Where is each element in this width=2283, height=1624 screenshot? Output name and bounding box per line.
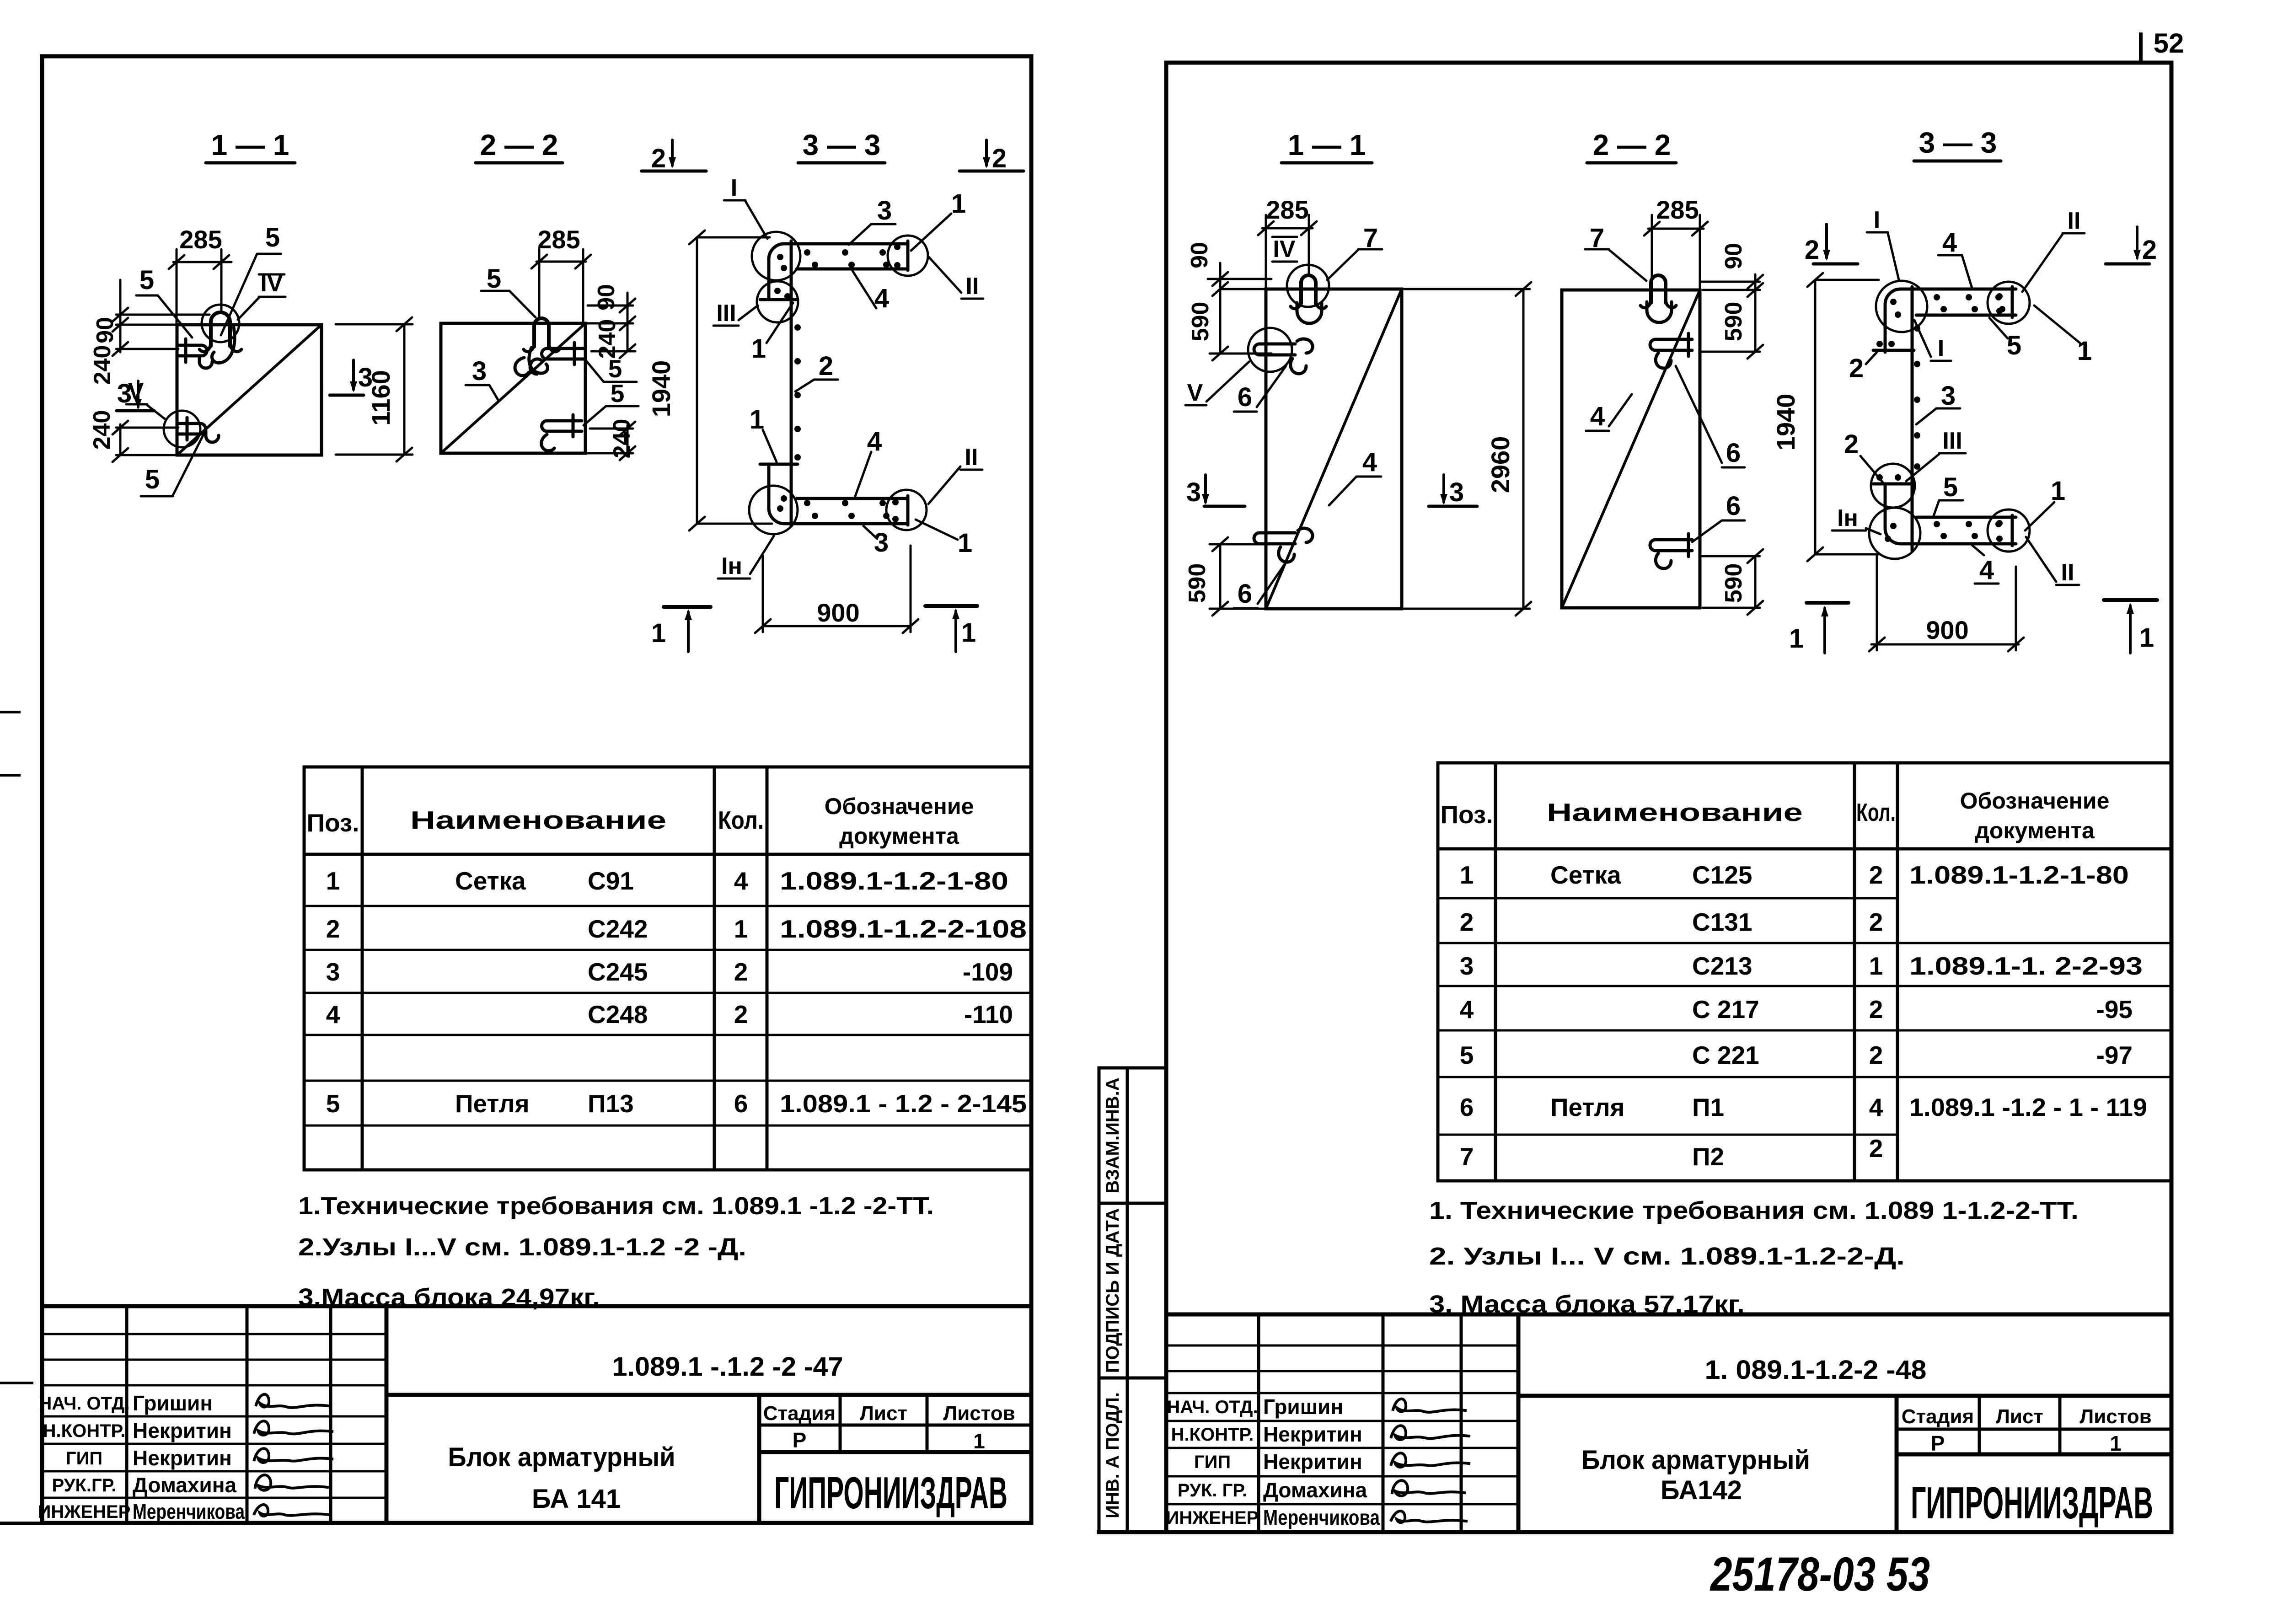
view 3-3 right: bottom flange inner line (1916, 516, 2016, 519)
svg-text:285: 285 (179, 225, 222, 254)
node label II top view 3-3 left (929, 257, 983, 300)
label 5 bottom view 1-1 (141, 431, 205, 496)
svg-text:III: III (1942, 428, 1962, 454)
svg-text:4: 4 (1869, 1093, 1883, 1121)
label 5 lower view 3-3 right (1934, 472, 1963, 516)
node label V view 1-1 right (1185, 362, 1249, 406)
svg-text:1: 1 (326, 867, 340, 895)
svg-text:3 — 3: 3 — 3 (803, 129, 881, 161)
svg-text:2: 2 (1869, 995, 1883, 1024)
view 3-3 right: top flange inner line (1916, 314, 2016, 317)
svg-text:2: 2 (1869, 1041, 1883, 1069)
signatures left sheet (254, 1394, 332, 1516)
svg-text:1: 1 (734, 915, 748, 943)
svg-text:90: 90 (593, 284, 620, 311)
title block col role (125, 1306, 129, 1523)
svg-text:1940: 1940 (1771, 394, 1800, 451)
svg-text:Стадия: Стадия (1902, 1405, 1974, 1428)
section title 2-2 left (476, 129, 563, 163)
svg-text:1: 1 (2077, 336, 2092, 366)
svg-text:БА142: БА142 (1661, 1475, 1742, 1505)
view 2-2 right: mesh diagonal 4 (1562, 290, 1700, 608)
node circle III left (757, 281, 798, 322)
svg-text:1.089.1-1.2-1-80: 1.089.1-1.2-1-80 (780, 867, 1008, 895)
title block row f (42, 1470, 386, 1473)
section title 1-1 left (206, 129, 295, 163)
section title 2-2 right (1587, 129, 1676, 163)
svg-text:285: 285 (1266, 195, 1308, 224)
notes right (1429, 1197, 2079, 1318)
svg-text:2: 2 (651, 144, 666, 173)
svg-text:Гришин: Гришин (133, 1391, 213, 1415)
tb col date right (1517, 1314, 1521, 1532)
svg-text:1. 089.1-1.2-2 -48: 1. 089.1-1.2-2 -48 (1705, 1355, 1927, 1385)
svg-text:52: 52 (2154, 28, 2184, 59)
strip divider (1126, 1068, 1129, 1532)
svg-text:4: 4 (1460, 995, 1474, 1024)
svg-text:90: 90 (92, 317, 118, 343)
strip top (1099, 1067, 1166, 1070)
view 3-3 right: top flange outer line (1885, 289, 2016, 352)
signature Некритин 1 right (1391, 1426, 1469, 1440)
table row line r2 (1438, 942, 2172, 944)
node circle II top left (888, 236, 928, 276)
svg-text:90: 90 (1720, 243, 1747, 269)
table row line 1 (304, 905, 1031, 907)
svg-text:1 — 1: 1 — 1 (1288, 129, 1366, 161)
svg-text:2960: 2960 (1486, 436, 1515, 493)
label 1 bottom view 3-3 left (916, 520, 972, 558)
svg-text:Iн: Iн (1837, 505, 1858, 531)
hook mid view 2-2 (530, 359, 542, 374)
view 3-3 left: crossbar right top (906, 241, 910, 270)
section marker 1 up bottom-left of 3-3 left (651, 607, 711, 652)
node circle Iн right (1869, 508, 1920, 559)
svg-text:С213: С213 (1692, 952, 1752, 980)
loop П hairpin view 1-1 right (1301, 275, 1316, 304)
svg-text:1.089.1 -.1.2 -2 -47: 1.089.1 -.1.2 -2 -47 (612, 1352, 843, 1382)
stadia box left (757, 1395, 761, 1523)
node circle II bottom left (886, 490, 927, 530)
rebar dots view 3-3 right (1876, 293, 2005, 542)
anchor hairpin right view 2-2 (542, 348, 586, 359)
sheet frame right (1166, 63, 2171, 1532)
svg-text:IV: IV (1273, 236, 1295, 263)
table row line 2 (304, 949, 1031, 951)
svg-text:590: 590 (1720, 563, 1747, 603)
table row line r5 (1438, 1076, 2172, 1078)
svg-text:2: 2 (734, 958, 748, 986)
svg-text:I: I (1938, 335, 1944, 362)
label 3 top view 3-3 left (849, 196, 895, 245)
view 3-3 right: crossbar right bottom (2011, 515, 2014, 546)
label 5 pair view 2-2 (586, 354, 637, 383)
label 2 mid view 3-3 right (1844, 429, 1883, 483)
label 6 lower view 2-2 right (1692, 491, 1745, 542)
svg-text:4: 4 (1362, 447, 1377, 477)
svg-text:Сетка: Сетка (1550, 861, 1621, 889)
parts table outline left (304, 767, 1031, 1170)
svg-text:1.089.1 -1.2 - 1 - 119: 1.089.1 -1.2 - 1 - 119 (1909, 1093, 2147, 1121)
svg-text:2. Узлы I... V см. 1.089.1-1: 2. Узлы I... V см. 1.089.1-1.2-2-Д. (1429, 1243, 1905, 1270)
svg-text:Р: Р (793, 1428, 807, 1452)
view 3-3 left: bottom flange outer line (769, 466, 908, 524)
svg-text:1: 1 (951, 189, 966, 219)
section marker 1 up bottom-right of 3-3 left (925, 606, 977, 652)
section marker 3 right view 1-1 right (1429, 475, 1477, 507)
view 3-3 left: top flange inner line (797, 268, 908, 271)
svg-text:С 217: С 217 (1692, 995, 1759, 1024)
anchor hairpin bottom view 2-2 (542, 421, 582, 431)
title block texts left (38, 1394, 131, 1522)
svg-text:1: 1 (958, 528, 972, 558)
doc number cell bottom right (1518, 1394, 2171, 1398)
svg-text:1: 1 (973, 1429, 985, 1453)
tb row b right (1166, 1370, 1518, 1372)
tb col sign right (1460, 1314, 1463, 1532)
svg-text:БА 141: БА 141 (532, 1484, 621, 1514)
section title 1-1 right (1281, 129, 1372, 163)
svg-text:НАЧ. ОТД.: НАЧ. ОТД. (1167, 1397, 1258, 1417)
section marker 2 down right of 3-3 right (2106, 227, 2157, 265)
svg-text:5: 5 (265, 223, 280, 252)
svg-text:документа: документа (1975, 818, 2095, 843)
svg-text:1.089.1-1.2-2-108: 1.089.1-1.2-2-108 (780, 915, 1027, 943)
stadia list divider (839, 1395, 842, 1452)
svg-text:I: I (731, 175, 737, 201)
svg-text:3: 3 (877, 196, 892, 225)
table row line r1 partial (1438, 897, 1897, 900)
view 3-3 right: bottom flange outer line (1885, 484, 2016, 544)
sheet frame left (42, 56, 1031, 1523)
tb row c right (1166, 1392, 1518, 1394)
node circle I right (1876, 281, 1927, 332)
tb col name right (1382, 1314, 1385, 1532)
svg-text:С248: С248 (588, 1000, 648, 1029)
loop lower bend view 1-1 right (1297, 303, 1322, 323)
strip section line 2 (1099, 1377, 1166, 1380)
svg-text:2: 2 (1869, 908, 1883, 936)
mid anchor hairpin view 2-2 right (1650, 339, 1692, 350)
svg-text:1 — 1: 1 — 1 (211, 129, 289, 161)
fold mark left 1 (0, 711, 19, 713)
svg-text:ГИПРОНИИЗДРАВ: ГИПРОНИИЗДРАВ (774, 1468, 1008, 1518)
svg-text:Лист: Лист (1996, 1405, 2043, 1428)
fold mark bottom left (0, 1522, 42, 1525)
svg-text:ИНЖЕНЕР: ИНЖЕНЕР (38, 1502, 131, 1522)
svg-text:900: 900 (817, 598, 859, 627)
hooks below bottom hairpin view 1-1 right (1279, 547, 1294, 562)
section title 3-3 left (798, 129, 885, 163)
svg-text:240: 240 (89, 410, 115, 450)
label 6 mid view 2-2 right (1676, 366, 1745, 468)
dimension 1160 between views (336, 317, 413, 461)
svg-text:Блок арматурный: Блок арматурный (1581, 1445, 1810, 1475)
table header bottom line (304, 853, 1031, 856)
label 4 top view 3-3 right (1938, 228, 1972, 288)
title block col name (246, 1306, 249, 1523)
view 3-3 left: web mesh line 2 (790, 241, 793, 526)
anchor hairpin left view 1-1 (177, 345, 207, 356)
section marker 3 left view 1-1 right (1186, 475, 1245, 507)
title block col sign (329, 1306, 332, 1523)
svg-text:4: 4 (1942, 228, 1957, 257)
list listov divider right (2058, 1396, 2062, 1454)
title block row e (42, 1443, 386, 1445)
parts table outline right (1438, 763, 2172, 1181)
label 6 bottom view 1-1 right (1234, 565, 1284, 609)
svg-text:1.089.1-1. 2-2-93: 1.089.1-1. 2-2-93 (1909, 952, 2143, 980)
page number tick top right (2139, 34, 2143, 63)
svg-text:2: 2 (1869, 861, 1883, 889)
svg-text:Листов: Листов (2079, 1405, 2151, 1428)
svg-text:3 — 3: 3 — 3 (1919, 126, 1997, 159)
label 1 top view 3-3 right (2034, 306, 2092, 366)
title block row a (42, 1333, 386, 1335)
svg-text:С131: С131 (1692, 908, 1752, 936)
svg-text:II: II (2061, 559, 2074, 586)
view 3-3 left: bottom flange inner line (797, 497, 908, 500)
table column line Кол right (1853, 763, 1856, 1181)
svg-text:ГИП: ГИП (66, 1448, 102, 1469)
svg-text:II: II (2068, 208, 2081, 234)
svg-text:3: 3 (1186, 477, 1201, 507)
doc number cell bottom (386, 1393, 1031, 1397)
tb row f right (1166, 1475, 1518, 1478)
svg-text:Стадия: Стадия (763, 1402, 836, 1425)
dimension 1940 view 3-3 left (689, 230, 772, 531)
strip section line 1 (1099, 1202, 1166, 1205)
label 7 view 2-2 right (1585, 223, 1646, 281)
svg-text:1.089.1 - 1.2 - 2-145: 1.089.1 - 1.2 - 2-145 (780, 1089, 1027, 1118)
label 4 view 1-1 right (1329, 447, 1381, 505)
svg-text:6: 6 (1726, 491, 1741, 521)
svg-text:3: 3 (1449, 477, 1464, 507)
label 4 view 2-2 right (1586, 394, 1632, 431)
label 4 lower view 3-3 left (855, 427, 882, 496)
label 5 view 2-2 (481, 264, 536, 317)
label 3 bottom view 3-3 left (863, 526, 889, 557)
svg-text:П13: П13 (588, 1089, 634, 1118)
view 3-3 right: crossbar upper left (1873, 349, 1914, 352)
svg-text:1: 1 (2110, 1431, 2122, 1455)
strip bottom (1099, 1530, 1166, 1534)
view 3-3 right: crossbar lower mid (1873, 482, 1914, 486)
hook below top loop view 2-2 (529, 348, 548, 373)
svg-text:-97: -97 (2096, 1041, 2133, 1069)
svg-text:4: 4 (1590, 402, 1605, 431)
label 5 top-right view 1-1 (221, 223, 281, 335)
node circle Iн left (749, 486, 798, 534)
svg-text:Меренчикова: Меренчикова (1263, 1506, 1380, 1529)
tb row a right (1166, 1345, 1518, 1347)
svg-text:1: 1 (1460, 861, 1474, 889)
node label I top view 3-3 right (1867, 207, 1899, 280)
svg-text:Iн: Iн (721, 553, 742, 579)
label 5 top-left view 1-1 (136, 265, 192, 338)
view 1-1 left: mesh diagonal 3 (177, 325, 322, 455)
svg-text:6: 6 (734, 1089, 748, 1118)
dimension 285 view 2-2 (531, 249, 591, 323)
svg-text:-110: -110 (964, 1000, 1013, 1029)
svg-text:4: 4 (734, 867, 748, 895)
stadia value row bottom (759, 1450, 1031, 1454)
label 4 top view 3-3 left (852, 271, 889, 313)
svg-text:-109: -109 (963, 958, 1013, 986)
svg-text:1: 1 (2139, 623, 2154, 653)
tb row e right (1166, 1447, 1518, 1449)
svg-text:590: 590 (1184, 563, 1211, 603)
svg-text:285: 285 (1656, 195, 1699, 224)
fold mark left 3 (0, 1382, 32, 1384)
svg-text:С91: С91 (588, 867, 634, 895)
svg-text:Блок арматурный: Блок арматурный (448, 1442, 675, 1472)
svg-text:Обозначение: Обозначение (1960, 788, 2110, 814)
svg-text:4: 4 (867, 427, 882, 456)
view 3-3 left: crossbar at node Iн (760, 463, 798, 466)
svg-text:2 — 2: 2 — 2 (480, 129, 558, 161)
svg-text:590: 590 (1187, 302, 1214, 342)
svg-text:НАЧ. ОТД.: НАЧ. ОТД. (38, 1394, 129, 1414)
node label IV view 1-1 right (1272, 236, 1297, 263)
stadia header bottom right (1897, 1428, 2171, 1431)
dimension 900 view 3-3 left (755, 546, 918, 633)
label 3 mid view 3-3 right (1916, 381, 1960, 424)
stadia value row bottom right (1897, 1452, 2171, 1457)
label 3 view 2-2 (466, 356, 498, 401)
node label IV view 1-1 (238, 270, 285, 320)
svg-text:2: 2 (1805, 235, 1819, 265)
hook below bottom hairpin view 2-2 right (1656, 553, 1671, 568)
stadia box left right (1895, 1396, 1899, 1532)
strip texts right (1103, 1077, 1123, 1518)
svg-text:ГИП: ГИП (1194, 1452, 1231, 1472)
svg-text:3.Масса блока 24,97кг.: 3.Масса блока 24,97кг. (298, 1284, 600, 1311)
svg-text:2: 2 (1844, 429, 1859, 459)
label 1 lower view 3-3 left (750, 405, 777, 462)
view 1-1 left: concrete panel outline (177, 325, 322, 455)
title block row d (42, 1415, 386, 1418)
anchor hairpin at V view 1-1 (177, 423, 206, 434)
svg-text:Кол.: Кол. (718, 806, 764, 834)
svg-text:Домахина: Домахина (133, 1473, 236, 1497)
svg-text:1: 1 (751, 334, 766, 364)
svg-text:5: 5 (608, 354, 622, 383)
svg-text:5: 5 (326, 1089, 340, 1118)
label 1 mid view 3-3 left (751, 303, 793, 364)
node circle V view 1-1 (164, 411, 200, 447)
section marker 2 down top-left of 3-3 left (642, 140, 706, 173)
table column line Обозначение right (1896, 763, 1899, 1181)
stadia list divider right (1978, 1396, 1981, 1454)
node label Iн view 3-3 right (1832, 505, 1881, 534)
hook left of top loop view 2-2 (515, 358, 529, 375)
svg-text:5: 5 (1460, 1041, 1474, 1069)
dimension chain left of view 1-1 right (1208, 263, 1271, 360)
signature Гришин left (256, 1394, 328, 1408)
svg-text:РУК.ГР.: РУК.ГР. (52, 1475, 116, 1495)
node label II lower view 3-3 left (928, 444, 982, 504)
table row line 6 (304, 1125, 1031, 1127)
node label III mid view 3-3 right (1906, 428, 1966, 481)
section marker 1 up bottom-left 3-3 right (1789, 603, 1849, 654)
svg-text:1.Технические требования см. 1: 1.Технические требования см. 1.089.1 -1.… (298, 1192, 934, 1220)
svg-text:1: 1 (2051, 476, 2065, 506)
node label III view 3-3 left (713, 300, 758, 327)
svg-text:ВЗАМ.ИНВ.А: ВЗАМ.ИНВ.А (1103, 1077, 1123, 1193)
anchor hairpin at V view 1-1 right (1254, 344, 1295, 355)
svg-text:5: 5 (2007, 331, 2021, 360)
section marker 3 left of view 1-1 (117, 379, 154, 411)
node label V view 1-1 (126, 378, 166, 420)
svg-text:ИНЖЕНЕР: ИНЖЕНЕР (1166, 1508, 1259, 1528)
dimension 2960 view 1-1 right (1404, 282, 1531, 616)
svg-text:1: 1 (1869, 952, 1883, 980)
svg-text:Поз.: Поз. (306, 809, 359, 837)
view 3-3 right: web mesh line 3 (1911, 287, 1914, 551)
view 2-2 left: mesh diagonal 3 (441, 323, 585, 453)
table column line Поз right (1494, 763, 1497, 1181)
view 3-3 left: crossbar at node III (760, 298, 798, 301)
svg-text:С242: С242 (588, 915, 648, 943)
node label Iн view 3-3 left (718, 536, 774, 579)
node label I mid view 3-3 right (1914, 320, 1951, 362)
svg-text:240: 240 (594, 319, 621, 359)
svg-text:6: 6 (1238, 579, 1252, 609)
svg-text:3: 3 (472, 356, 487, 386)
svg-text:Поз.: Поз. (1440, 800, 1493, 829)
svg-text:5: 5 (1943, 472, 1958, 502)
svg-text:Меренчикова: Меренчикова (133, 1500, 245, 1523)
svg-text:3: 3 (117, 379, 132, 408)
hooks right of V view 1-1 right (1297, 339, 1313, 353)
table row line r3 (1438, 985, 2172, 987)
title block top line (42, 1304, 1031, 1308)
svg-text:25178-03 53: 25178-03 53 (1710, 1548, 1930, 1601)
node circle IV view 1-1 right (1287, 265, 1329, 307)
view 3-3 left: crossbar right bottom (906, 496, 910, 525)
view 2-2 left: concrete panel outline (441, 323, 585, 453)
svg-text:1: 1 (1789, 624, 1804, 654)
svg-text:документа: документа (839, 823, 959, 849)
svg-text:С125: С125 (1692, 861, 1752, 889)
dimension 900 view 3-3 right (1869, 556, 2024, 651)
title block row c (42, 1384, 386, 1387)
dim chain lower left view 1-1 right (1210, 537, 1271, 616)
section marker 2 down left of 3-3 right (1805, 224, 1858, 265)
svg-text:I: I (1874, 207, 1880, 233)
svg-text:2: 2 (1460, 908, 1474, 936)
svg-text:Лист: Лист (860, 1402, 907, 1425)
svg-text:-95: -95 (2096, 995, 2133, 1024)
svg-text:Домахина: Домахина (1263, 1478, 1367, 1502)
svg-text:6: 6 (1238, 382, 1252, 412)
svg-text:Н.КОНТР.: Н.КОНТР. (43, 1421, 126, 1441)
label 7 view 1-1 right (1327, 223, 1382, 280)
signature Домахина right (1392, 1480, 1464, 1496)
svg-text:Н.КОНТР.: Н.КОНТР. (1171, 1425, 1254, 1445)
svg-text:С 221: С 221 (1692, 1041, 1759, 1069)
svg-text:Кол.: Кол. (1856, 798, 1896, 826)
title block top line right (1166, 1313, 2171, 1317)
view 3-3 right: crossbar right top (2011, 287, 2014, 317)
svg-text:Обозначение: Обозначение (825, 793, 974, 819)
loop hairpin top view 2-2 (534, 318, 549, 347)
node circle III right (1871, 464, 1915, 508)
label 4 bottom view 3-3 right (1972, 545, 1999, 585)
view 2-2 right: panel outline (1562, 290, 1700, 608)
svg-text:ГИПРОНИИЗДРАВ: ГИПРОНИИЗДРАВ (1911, 1478, 2153, 1528)
